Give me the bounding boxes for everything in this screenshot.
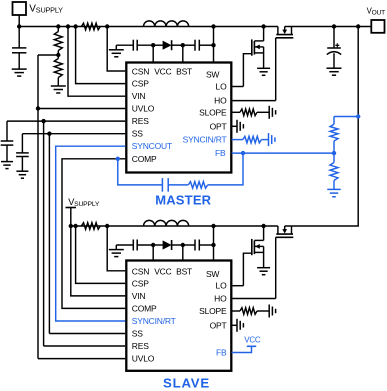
svg-text:SYNCIN/RT: SYNCIN/RT xyxy=(183,135,227,145)
wire VOUT down to slave rail xyxy=(285,27,359,227)
ground (output cap) xyxy=(327,68,342,75)
resistor RSLOPE (slave) xyxy=(232,308,270,315)
wire SYNCOUT to slave SYNCIN/RT (blue) xyxy=(56,146,126,321)
svg-text:OPT: OPT xyxy=(210,121,227,131)
svg-text:MASTER: MASTER xyxy=(155,193,211,208)
label MASTER xyxy=(155,193,211,208)
svg-text:VSUPPLY: VSUPPLY xyxy=(29,4,63,15)
svg-text:HO: HO xyxy=(214,96,227,106)
wire HO gate drive (master) xyxy=(232,38,276,101)
inductor L1 (master) xyxy=(144,21,189,27)
node master SW / BST tie xyxy=(211,24,215,28)
ground (SS cap) xyxy=(16,171,28,178)
wire slave FB to VCC (blue) xyxy=(232,346,257,352)
svg-text:SW: SW xyxy=(206,69,219,79)
capacitor CSLOPE to ground (slave) xyxy=(269,305,275,318)
capacitor CBST (slave) xyxy=(183,240,214,251)
wire slave CSN xyxy=(107,226,125,271)
svg-text:VCC: VCC xyxy=(154,266,171,276)
wire master CSN xyxy=(107,27,125,72)
resistor RS (slave current sense) xyxy=(81,223,100,230)
wire slave VIN xyxy=(71,226,125,296)
wire slave BST pin xyxy=(182,245,184,261)
capacitor CIN (master input) xyxy=(12,27,26,70)
op-amp U2 slave controller IC body xyxy=(126,261,231,371)
node slave CSP tap xyxy=(73,224,77,228)
node slave low-side drain xyxy=(261,224,265,228)
svg-text:CSP: CSP xyxy=(132,278,149,288)
svg-text:COMP: COMP xyxy=(132,154,157,164)
capacitor COPT to ground (master) xyxy=(232,120,244,133)
transistor Q2 (master high-side, horizontal N-FET) xyxy=(276,27,294,38)
U2 pin labels right xyxy=(199,281,227,358)
transistor Q1 (master low-side, vertical N-FET) xyxy=(252,27,264,69)
U2 pin labels left xyxy=(132,266,220,363)
svg-text:SYNCOUT: SYNCOUT xyxy=(132,141,172,151)
wire LO gate drive (master) xyxy=(232,54,252,87)
resistor RS (master current sense) xyxy=(81,23,100,30)
svg-text:CSP: CSP xyxy=(132,79,149,89)
node slave SW / BST tie xyxy=(211,224,215,228)
wire HO gate drive (slave) xyxy=(232,237,276,298)
label VCC (slave FB tie) xyxy=(244,336,261,345)
svg-text:LO: LO xyxy=(216,82,228,92)
ground (master low-side source) xyxy=(257,68,270,75)
transistor Q4 (slave high-side, horizontal N-FET) xyxy=(276,226,294,237)
svg-text:UVLO: UVLO xyxy=(132,354,155,364)
svg-text:SYNCIN/RT: SYNCIN/RT xyxy=(132,316,176,326)
svg-text:COMP: COMP xyxy=(132,303,157,313)
resistor RUV2 (UVLO divider lower) xyxy=(54,55,62,86)
node master low-side drain xyxy=(261,24,265,28)
svg-text:LO: LO xyxy=(216,281,228,291)
svg-text:SS: SS xyxy=(132,329,143,339)
svg-text:VCC: VCC xyxy=(244,336,261,345)
svg-text:VCC: VCC xyxy=(154,67,171,77)
capacitor COPT to ground (slave) xyxy=(232,319,244,332)
svg-text:OPT: OPT xyxy=(210,320,227,330)
capacitor CCOMP (blue) xyxy=(162,178,168,192)
wire compensation down leg (blue) xyxy=(118,159,163,185)
svg-text:UVLO: UVLO xyxy=(132,104,155,114)
wire VCC pin xyxy=(152,45,154,62)
wire master input rail xyxy=(19,26,278,28)
wire slave CSP xyxy=(76,226,126,283)
inductor L2 (slave) xyxy=(144,220,189,226)
resistor RSLOPE (master) xyxy=(232,109,270,116)
capacitor CRT to ground (master, blue) xyxy=(269,133,275,146)
capacitor CVCC (master) xyxy=(133,40,155,51)
svg-text:FB: FB xyxy=(215,148,226,158)
wire slave VCC pin xyxy=(152,245,154,261)
wire VSUPPLY to input rail xyxy=(17,15,21,29)
terminal VSUPPLY (master input) xyxy=(13,2,64,15)
ground (RES cap) xyxy=(1,162,13,169)
ground (slave VCC cap) xyxy=(109,250,124,257)
svg-text:FB: FB xyxy=(216,348,227,358)
capacitor CVCC (slave) xyxy=(133,240,155,251)
diode DBST (master) xyxy=(153,40,185,50)
diode DBST (slave) xyxy=(153,240,185,250)
node master CSP tap xyxy=(73,24,77,28)
resistor RFB1 (upper, blue) xyxy=(330,117,338,154)
terminal VSUPPLY (slave input) xyxy=(66,197,100,226)
svg-text:CSN: CSN xyxy=(132,67,149,77)
U1 pin labels right xyxy=(183,82,227,159)
wire RES bus xyxy=(7,119,125,346)
U1 pin labels left xyxy=(132,67,220,164)
wire master CSP xyxy=(76,27,126,84)
wire slave SW node down to IC top xyxy=(211,226,215,261)
terminal VOUT xyxy=(367,6,386,32)
resistor RUV1 (UVLO divider upper) xyxy=(54,27,62,58)
wire FB line (blue) xyxy=(232,151,337,155)
svg-text:BST: BST xyxy=(176,67,192,77)
wire SW node down to IC top xyxy=(211,27,215,63)
capacitor CSLOPE to ground (master) xyxy=(269,106,275,119)
label SLAVE xyxy=(163,376,210,391)
wire FB divider top tie (blue) xyxy=(334,114,360,118)
svg-text:RES: RES xyxy=(132,116,149,126)
node slave CSN tap xyxy=(105,224,109,228)
node output cap tap xyxy=(332,24,336,28)
op-amp U1 master controller IC body xyxy=(126,63,231,173)
wire master output rail xyxy=(285,26,372,28)
resistor RCOMP (blue) xyxy=(168,182,208,189)
wire slave input rail xyxy=(71,225,278,227)
svg-text:HO: HO xyxy=(214,294,227,304)
svg-text:SS: SS xyxy=(132,129,143,139)
svg-text:SLAVE: SLAVE xyxy=(163,376,210,391)
wire divider tap to UVLO bus xyxy=(38,54,58,56)
svg-text:BST: BST xyxy=(176,266,192,276)
ground (FB divider, blue) xyxy=(327,189,341,196)
ground (UVLO divider) xyxy=(51,86,66,93)
svg-text:SLOPE: SLOPE xyxy=(199,306,227,316)
wire BST pin xyxy=(182,45,184,62)
svg-text:VIN: VIN xyxy=(132,91,146,101)
wire COMP bus xyxy=(62,159,125,309)
transistor Q3 (slave low-side, vertical N-FET) xyxy=(252,226,264,268)
capacitor CRES xyxy=(1,121,14,162)
node master VIN tap xyxy=(66,24,70,28)
capacitor CBST (master) xyxy=(183,40,214,51)
ground (slave low-side source) xyxy=(257,268,270,275)
svg-text:SW: SW xyxy=(206,269,219,279)
wire compensation to FB (blue) xyxy=(208,151,246,185)
node master UVLO divider tap on rail xyxy=(56,24,60,28)
svg-text:CSN: CSN xyxy=(132,266,149,276)
node VOUT column tie xyxy=(356,24,360,28)
wire LO gate drive (slave) xyxy=(232,253,252,286)
svg-text:RES: RES xyxy=(132,341,149,351)
node COMP compensation tap (blue) xyxy=(116,157,120,161)
wire UVLO bus (master UVLO to slave UVLO) xyxy=(36,55,125,359)
svg-text:SLOPE: SLOPE xyxy=(199,107,227,117)
capacitor COUT (polarized) xyxy=(327,27,341,69)
resistor RFB2 (lower, blue) xyxy=(330,153,338,189)
wire SS bus xyxy=(22,132,125,334)
svg-text:VIN: VIN xyxy=(132,291,146,301)
ground (master input cap) xyxy=(12,69,27,76)
resistor RT (master SYNCIN/RT, blue) xyxy=(232,136,269,143)
wire slave vcc cap to ground xyxy=(116,245,133,250)
node slave supply tap xyxy=(69,224,73,228)
capacitor CSS xyxy=(16,134,29,172)
ground (master VCC cap) xyxy=(109,50,124,57)
wire vcc cap to ground xyxy=(116,45,133,50)
node master CSN tap xyxy=(105,24,109,28)
wire master VIN xyxy=(68,27,125,97)
